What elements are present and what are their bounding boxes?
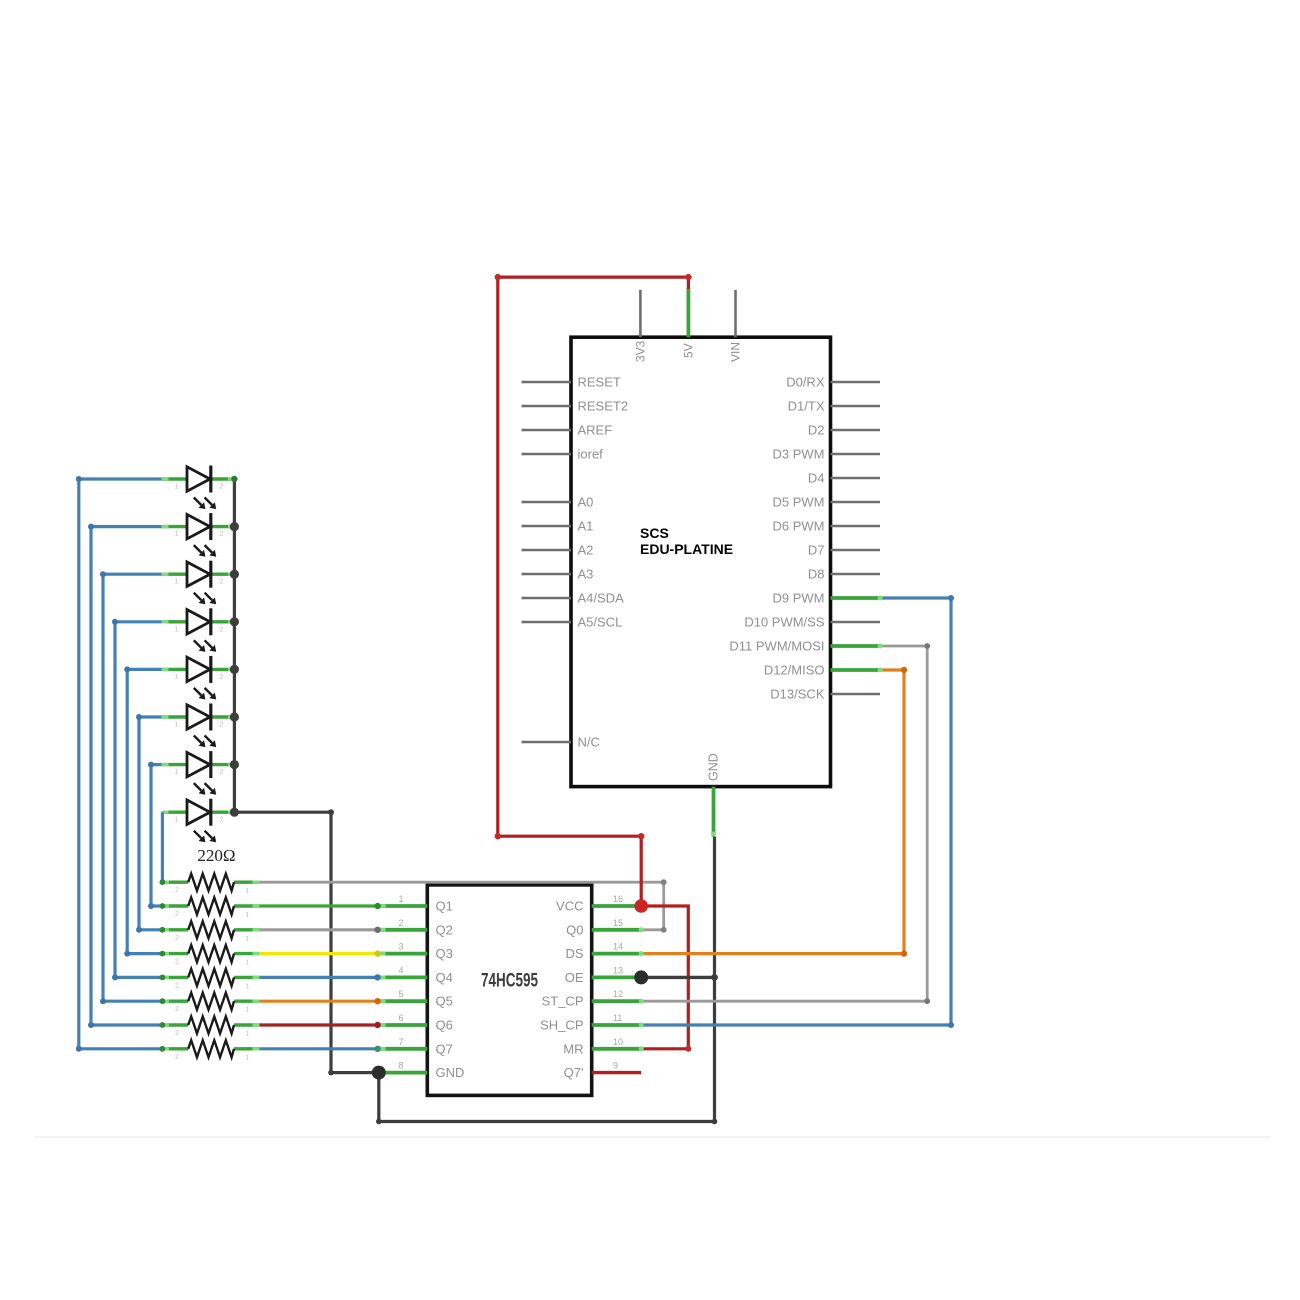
pin A4/SDA (522, 591, 625, 606)
junction (661, 879, 667, 885)
svg-text:6: 6 (398, 1013, 403, 1023)
pin D0/RX (786, 375, 880, 390)
svg-text:1: 1 (175, 484, 179, 491)
junction (924, 998, 930, 1004)
svg-text:2: 2 (398, 918, 403, 928)
svg-text:A4/SDA: A4/SDA (578, 591, 625, 606)
LED LED5 (162, 656, 235, 700)
svg-text:D13/SCK: D13/SCK (770, 687, 825, 702)
junction (100, 998, 106, 1004)
decorative faint line (35, 1136, 1270, 1138)
wire (Q7' stub) (592, 1071, 642, 1074)
svg-text:Q7: Q7 (436, 1041, 453, 1056)
svg-text:SCS: SCS (640, 525, 669, 541)
junction (495, 833, 501, 839)
svg-text:2: 2 (175, 959, 179, 966)
svg-text:16: 16 (613, 894, 623, 904)
pin 3 Q3 (378, 942, 453, 962)
resistor R2 220 ohm (162, 898, 259, 920)
svg-text:2: 2 (175, 1054, 179, 1061)
svg-text:8: 8 (398, 1061, 403, 1071)
wire (LED cathode bus) (233, 479, 236, 812)
junction (230, 617, 239, 626)
svg-text:Q6: Q6 (436, 1018, 453, 1033)
svg-text:VIN: VIN (729, 342, 743, 362)
svg-text:14: 14 (613, 942, 623, 952)
pin 9 Q7' (564, 1061, 618, 1081)
svg-text:AREF: AREF (578, 423, 613, 438)
svg-text:12: 12 (613, 989, 623, 999)
LED LED8 (162, 799, 235, 843)
junction (160, 1046, 166, 1052)
junction (230, 712, 239, 721)
pin tip (639, 1023, 644, 1028)
wire (GND net from LED bus) (234, 812, 378, 1072)
pin A3 (522, 567, 594, 582)
junction (76, 476, 82, 482)
junction (124, 666, 130, 672)
junction (711, 974, 718, 981)
svg-text:D6 PWM: D6 PWM (773, 519, 825, 534)
svg-text:1: 1 (246, 1007, 250, 1014)
svg-text:Q3: Q3 (436, 946, 453, 961)
pin D8 (808, 567, 880, 582)
junction (76, 1046, 82, 1052)
pin tip (639, 927, 644, 932)
svg-text:1: 1 (246, 936, 250, 943)
svg-text:5V: 5V (682, 343, 696, 358)
svg-text:7: 7 (398, 1037, 403, 1047)
svg-text:Q7': Q7' (564, 1065, 584, 1080)
pin tip (639, 999, 644, 1004)
junction (230, 808, 239, 817)
svg-text:ST_CP: ST_CP (542, 994, 584, 1009)
junction (GND pin 8) (372, 1066, 386, 1080)
svg-text:OE: OE (565, 970, 584, 985)
svg-text:MR: MR (563, 1041, 583, 1056)
pin 11 SH_CP (540, 1013, 641, 1033)
pin D7 (808, 543, 880, 558)
svg-text:1: 1 (175, 531, 179, 538)
LED LED2 (162, 513, 235, 557)
svg-text:1: 1 (175, 817, 179, 824)
wire (GND net below IC) (379, 837, 715, 1122)
junction (88, 1022, 94, 1028)
svg-text:2: 2 (175, 911, 179, 918)
pin 2 Q2 (378, 918, 453, 938)
pin D13/SCK (770, 687, 880, 702)
wire (79, 479, 163, 1049)
junction (948, 1022, 954, 1028)
pin tip (639, 951, 644, 956)
svg-text:DS: DS (565, 946, 583, 961)
junction (948, 595, 954, 601)
LED LED7 (162, 751, 235, 795)
pin A1 (522, 519, 594, 534)
svg-text:GND: GND (707, 753, 721, 781)
pin 14 DS (565, 942, 641, 962)
junction (88, 524, 94, 530)
pin A0 (522, 495, 594, 510)
pin D1/TX (788, 399, 880, 414)
svg-text:1: 1 (246, 912, 250, 919)
svg-text:SH_CP: SH_CP (540, 1018, 583, 1033)
pin tip (639, 904, 644, 909)
resistor R8 220 ohm (162, 1040, 259, 1062)
svg-text:Q1: Q1 (436, 899, 453, 914)
wire (260, 1023, 378, 1026)
pin N/C (522, 735, 600, 750)
pin ioref (522, 447, 604, 462)
svg-text:ioref: ioref (578, 447, 604, 462)
svg-text:1: 1 (246, 888, 250, 895)
svg-text:2: 2 (220, 722, 224, 729)
svg-text:D7: D7 (808, 543, 825, 558)
LED LED1 (162, 466, 235, 510)
svg-text:Q5: Q5 (436, 994, 453, 1009)
pin D12/MISO (764, 663, 880, 678)
resistor R5 220 ohm (162, 969, 259, 991)
svg-text:D0/RX: D0/RX (786, 375, 825, 390)
svg-text:A0: A0 (578, 495, 594, 510)
junction (328, 1070, 334, 1076)
junction (112, 974, 118, 980)
pin D6 PWM (773, 519, 881, 534)
resistor R4 220 ohm (162, 945, 259, 967)
wire (260, 1047, 378, 1050)
svg-text:D1/TX: D1/TX (788, 399, 825, 414)
junction (374, 1022, 380, 1028)
wire (D11 to ST_CP) (641, 646, 927, 1001)
junction (230, 522, 239, 531)
pin A2 (522, 543, 594, 558)
svg-text:15: 15 (613, 918, 623, 928)
pin 15 Q0 (566, 918, 641, 938)
svg-text:RESET2: RESET2 (578, 399, 629, 414)
svg-text:D5 PWM: D5 PWM (773, 495, 825, 510)
pin tip (878, 644, 883, 649)
junction (638, 833, 644, 839)
junction (685, 274, 691, 280)
svg-text:A5/SCL: A5/SCL (578, 615, 623, 630)
junction (374, 974, 380, 980)
junction (160, 1022, 166, 1028)
svg-text:11: 11 (613, 1013, 622, 1023)
svg-text:D10 PWM/SS: D10 PWM/SS (744, 615, 825, 630)
junction (160, 975, 166, 981)
svg-text:D2: D2 (808, 423, 825, 438)
wire (260, 952, 378, 955)
svg-text:D4: D4 (808, 471, 825, 486)
junction (661, 927, 667, 933)
svg-text:EDU-PLATINE: EDU-PLATINE (640, 541, 733, 557)
wire (151, 765, 162, 906)
junction (685, 1046, 691, 1052)
pin tip (711, 832, 716, 837)
pin D10 PWM/SS (744, 615, 880, 630)
pin 10 MR (563, 1037, 641, 1057)
pin 4 Q4 (378, 965, 453, 985)
junction (124, 951, 130, 957)
wire (D9 to SH_CP) (641, 598, 951, 1025)
svg-text:Q2: Q2 (436, 922, 453, 937)
resistor R3 220 ohm (162, 921, 259, 943)
svg-text:A2: A2 (578, 543, 594, 558)
junction (OE pin 13) (634, 970, 648, 984)
svg-text:D9 PWM: D9 PWM (773, 591, 825, 606)
wire (91, 527, 162, 1025)
wire (OE) (641, 976, 714, 979)
svg-text:2: 2 (220, 817, 224, 824)
svg-text:220Ω: 220Ω (197, 846, 235, 865)
svg-text:2: 2 (175, 887, 179, 894)
svg-text:1: 1 (246, 1031, 250, 1038)
svg-text:2: 2 (175, 982, 179, 989)
wire (VCC to MR) (641, 906, 688, 1049)
junction (328, 809, 334, 815)
wire (260, 904, 378, 907)
LED LED6 (162, 704, 235, 748)
IC U1 74HC595 (427, 885, 591, 1096)
junction (148, 903, 154, 909)
wire (D12/MISO to DS) (641, 670, 904, 954)
svg-text:2: 2 (220, 626, 224, 633)
wire (5V red net) (498, 277, 689, 906)
svg-text:2: 2 (220, 531, 224, 538)
junction (VCC pin 16) (634, 899, 648, 913)
svg-text:2: 2 (220, 579, 224, 586)
wire (R1 to Q0) (260, 882, 664, 930)
svg-text:2: 2 (175, 1030, 179, 1037)
pin 12 ST_CP (542, 989, 642, 1009)
pin D4 (808, 471, 880, 486)
LED LED4 (162, 608, 235, 652)
svg-text:1: 1 (175, 674, 179, 681)
junction (376, 1119, 382, 1125)
pin tip (639, 975, 644, 980)
junction (136, 714, 142, 720)
resistor R7 220 ohm (162, 1017, 259, 1039)
junction (495, 274, 501, 280)
svg-text:2: 2 (220, 674, 224, 681)
svg-text:1: 1 (246, 960, 250, 967)
svg-text:3V3: 3V3 (634, 340, 648, 362)
svg-text:A1: A1 (578, 519, 594, 534)
wire (260, 1000, 378, 1003)
junction (160, 879, 166, 885)
pin D5 PWM (773, 495, 881, 510)
svg-text:2: 2 (220, 484, 224, 491)
pin 8 GND (378, 1061, 465, 1081)
junction (160, 998, 166, 1004)
resistor R6 220 ohm (162, 993, 259, 1015)
svg-text:1: 1 (175, 722, 179, 729)
wire (260, 976, 378, 979)
svg-text:3: 3 (398, 942, 403, 952)
junction (230, 570, 239, 579)
pin tip (639, 1046, 644, 1051)
junction (148, 762, 154, 768)
svg-text:74HC595: 74HC595 (481, 971, 538, 992)
svg-text:5: 5 (398, 989, 403, 999)
svg-text:D3 PWM: D3 PWM (773, 447, 825, 462)
svg-text:1: 1 (398, 894, 403, 904)
pin 16 VCC (556, 894, 641, 914)
svg-text:D11 PWM/MOSI: D11 PWM/MOSI (729, 639, 824, 654)
junction (901, 950, 907, 956)
pin RESET (522, 375, 621, 390)
svg-text:13: 13 (613, 965, 623, 975)
svg-text:A3: A3 (578, 567, 594, 582)
wire (115, 622, 162, 978)
junction (112, 619, 118, 625)
pin 5V (682, 288, 696, 358)
pin tip (878, 668, 883, 673)
junction (712, 1119, 718, 1125)
junction (924, 643, 930, 649)
svg-text:Q4: Q4 (436, 970, 453, 985)
junction (374, 903, 380, 909)
wire (161, 812, 164, 882)
junction (374, 1046, 380, 1052)
wire (139, 717, 162, 930)
pin D11 PWM/MOSI (729, 639, 880, 654)
svg-text:GND: GND (436, 1065, 465, 1080)
pin tip (878, 596, 883, 601)
pin 13 OE (565, 965, 641, 985)
svg-text:1: 1 (175, 579, 179, 586)
svg-text:Q0: Q0 (566, 922, 583, 937)
svg-text:D8: D8 (808, 567, 825, 582)
svg-text:RESET: RESET (578, 375, 621, 390)
junction (136, 927, 142, 933)
wire (103, 574, 162, 1001)
junction (374, 927, 380, 933)
pin 3V3 (634, 290, 648, 362)
junction (230, 760, 239, 769)
junction (160, 903, 166, 909)
svg-text:9: 9 (613, 1061, 618, 1071)
svg-text:VCC: VCC (556, 899, 583, 914)
pin 6 Q6 (378, 1013, 453, 1033)
junction (374, 950, 380, 956)
svg-text:D12/MISO: D12/MISO (764, 663, 825, 678)
LED LED3 (162, 561, 235, 605)
junction (374, 998, 380, 1004)
pin D9 PWM (773, 591, 881, 606)
junction (231, 476, 237, 482)
junction (160, 927, 166, 933)
pin D2 (808, 423, 880, 438)
pin A5/SCL (522, 615, 623, 630)
pin 1 Q1 (378, 894, 453, 914)
svg-text:1: 1 (246, 983, 250, 990)
pin AREF (522, 423, 613, 438)
resistor R1 220 ohm (162, 874, 259, 896)
junction (160, 951, 166, 957)
junction (100, 571, 106, 577)
svg-text:2: 2 (220, 769, 224, 776)
svg-text:1: 1 (175, 769, 179, 776)
pin VIN (729, 290, 743, 362)
pin 7 Q7 (378, 1037, 453, 1057)
svg-text:1: 1 (246, 1055, 250, 1062)
board SCS EDU-PLATINE (Arduino) (571, 337, 831, 786)
svg-text:N/C: N/C (578, 735, 600, 750)
wire (260, 928, 378, 931)
pin GND (707, 753, 721, 837)
pin RESET2 (522, 399, 629, 414)
junction (230, 665, 239, 674)
pin 5 Q5 (378, 989, 453, 1009)
svg-text:4: 4 (398, 965, 403, 975)
pin D3 PWM (773, 447, 881, 462)
svg-text:2: 2 (175, 1006, 179, 1013)
svg-text:1: 1 (175, 626, 179, 633)
svg-text:2: 2 (175, 935, 179, 942)
wire (127, 669, 162, 953)
junction (901, 667, 907, 673)
svg-text:10: 10 (613, 1037, 623, 1047)
